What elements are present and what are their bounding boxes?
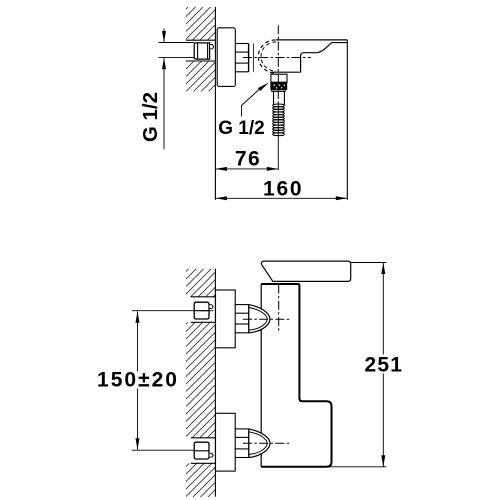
body bottom extension line to 251 dim: [261, 466, 386, 468]
bottom wall nut (side view): [194, 442, 209, 459]
body cap hidden arc inner (dashed): [261, 42, 276, 71]
body column: [260, 284, 262, 467]
hose centerline extension to 76 dim: [277, 103, 279, 170]
body top edge: [261, 283, 299, 285]
nut facet line 1: [197, 43, 199, 59]
svg-text:76: 76: [235, 148, 261, 171]
extension line 251 top: [351, 262, 387, 264]
top wall nut (side view): [194, 302, 209, 319]
bottom inlet horizontal centerline: [243, 442, 290, 444]
body cap hidden arc outer (dashed): [258, 40, 275, 73]
wall hatch section 3: [186, 463, 215, 497]
wall hole outline bottom: [186, 60, 215, 62]
lever handle (side view): [261, 261, 350, 281]
wall face line (also extension line for 76/160 dims): [214, 7, 216, 200]
bottom pipe inner lines: [235, 436, 249, 438]
bottom inlet hole outline: [191, 437, 216, 439]
handle top edge: [276, 39, 347, 41]
top union flare: [249, 305, 270, 333]
top inlet hole outline: [191, 296, 216, 298]
svg-text:251: 251: [364, 354, 403, 377]
wall hatch section 1: [186, 269, 215, 297]
hose corrugated coil: [273, 104, 285, 136]
handle end step line: [332, 42, 348, 44]
150 dimension line with arrows: [137, 312, 139, 450]
body bottom edge: [271, 71, 301, 73]
extension line 150 bottom: [132, 449, 194, 451]
nut outlet tip: [210, 45, 214, 49]
handle right edge + extension to 160 dim: [346, 40, 348, 200]
top union flare inner lines: [249, 308, 267, 331]
leader line for G 1/2 outlet: [242, 86, 264, 117]
extension line 150 top: [132, 310, 194, 312]
wall hatch upper part: [186, 7, 215, 40]
bottom escutcheon plate: [216, 413, 236, 471]
horizontal centerline of body: [243, 57, 311, 59]
bottom nut facet line: [194, 450, 209, 452]
bottom union flare inner lines: [249, 432, 267, 455]
top nut centerline dash: [201, 310, 214, 312]
connector pipe inner bottom: [235, 62, 248, 64]
top pipe outer lines: [235, 304, 249, 306]
svg-text:G 1/2: G 1/2: [139, 92, 162, 142]
supply fitting nut (top view): [194, 43, 209, 59]
top inlet horizontal centerline: [243, 318, 290, 320]
extension line G1/2 top: [159, 42, 195, 44]
vertical centerline of body/hose: [277, 25, 279, 103]
wall plate escutcheon (top view): [217, 28, 235, 87]
body vertical centerline: [278, 285, 280, 333]
nut facet line 2: [207, 43, 209, 59]
G1/2 dimension line upper segment with down arrow: [163, 29, 165, 43]
connector pipe outer top: [235, 43, 248, 45]
svg-text:160: 160: [263, 178, 303, 201]
top pipe inner lines: [235, 312, 249, 314]
wall face line: [214, 269, 216, 497]
svg-text:150±20: 150±20: [97, 369, 179, 392]
handle grip curve: [301, 43, 332, 73]
connector collar line 1: [248, 44, 250, 72]
bottom pipe outer lines: [235, 428, 249, 430]
body right edge and lower step outline: [261, 284, 331, 467]
150+-20 label: [96, 369, 179, 392]
hose straight section left edge: [273, 92, 275, 106]
160 dimension line: [215, 197, 347, 199]
wall hole outline top: [186, 39, 215, 41]
wall hatch section 2: [186, 322, 215, 438]
connector pipe inner top: [235, 51, 248, 53]
bottom union flare: [249, 429, 270, 458]
top nut facet line: [194, 310, 209, 312]
251 label: [363, 354, 404, 377]
top escutcheon plate: [216, 290, 236, 348]
top nut tip: [209, 305, 213, 309]
connector collar line 2: [253, 44, 255, 72]
top pipe end line: [248, 305, 250, 333]
G1/2 dimension line lower segment with up arrow: [163, 58, 165, 150]
shower outlet stub: [271, 74, 287, 82]
bottom pipe end line: [248, 429, 250, 458]
svg-text:G 1/2: G 1/2: [218, 118, 264, 139]
wall hatch lower part: [186, 61, 215, 91]
251 dimension line with arrows: [382, 263, 384, 467]
hose straight section right edge: [283, 92, 285, 106]
hose collar: [272, 90, 286, 92]
threaded connector dark block: [270, 82, 287, 90]
bottom nut tip: [209, 453, 213, 457]
76 dimension line: [215, 168, 278, 170]
connector pipe outer bottom: [235, 71, 248, 73]
extension line G1/2 bottom: [159, 57, 195, 59]
